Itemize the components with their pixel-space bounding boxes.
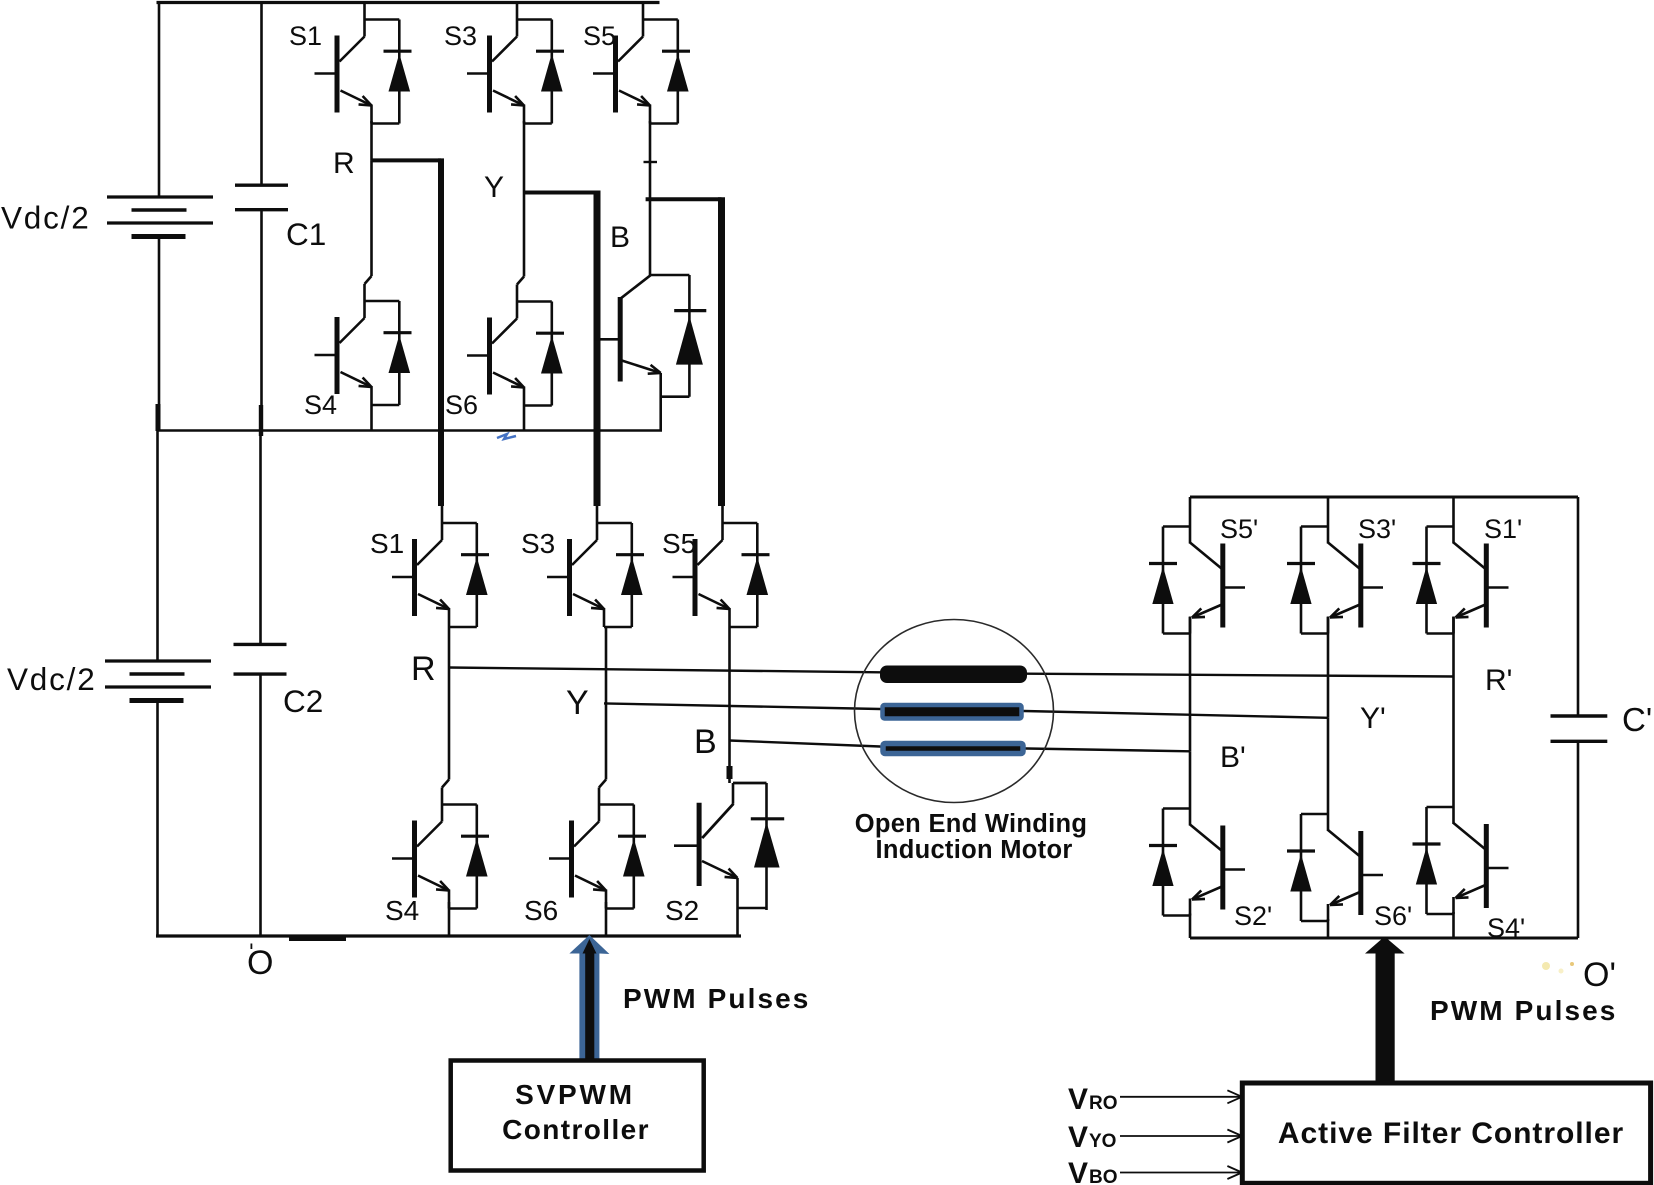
wire: phase B to motor and inverter 2 bbox=[730, 741, 1191, 752]
diode (antiparallel, S5 (tier-1)) bbox=[676, 20, 679, 124]
diode (antiparallel, S5' (inverter 2)) bbox=[1162, 527, 1165, 634]
transistor S1' (inverter 2) bbox=[1413, 527, 1509, 634]
svg-text:Y': Y' bbox=[1360, 702, 1386, 735]
svg-text:S2': S2' bbox=[1234, 901, 1272, 931]
wire: bottom rail to O bbox=[156, 934, 741, 937]
junction blob on B leg bbox=[727, 766, 733, 779]
svg-text:R: R bbox=[411, 650, 436, 688]
wire: S6' emitter to bottom rail bbox=[1327, 919, 1330, 938]
wire: node B down to lower switch bbox=[649, 199, 652, 275]
wire: B feed down to tier-2 (thick) bbox=[718, 197, 725, 506]
diode (antiparallel, S3 (tier-1)) bbox=[550, 20, 553, 124]
wire: leg S1' collector from top rail bbox=[1452, 497, 1455, 527]
wire: S3' emitter down to node bbox=[1327, 617, 1330, 718]
dot above O bbox=[251, 944, 253, 950]
transistor S3 (tier-1) bbox=[467, 3, 564, 124]
svg-text:S3': S3' bbox=[1358, 514, 1396, 544]
svg-text:R': R' bbox=[1485, 664, 1512, 697]
motor winding bar Y (black w/ blue outline) bbox=[883, 705, 1022, 719]
battery Vdc/2 (upper) bbox=[107, 197, 213, 237]
transistor S2' (inverter 2) bbox=[1149, 809, 1245, 916]
svg-text:Open End Winding: Open End Winding bbox=[855, 810, 1088, 838]
box: Active Filter Controller bbox=[1242, 1083, 1650, 1183]
svg-text:V: V bbox=[1068, 1121, 1088, 1154]
svg-text:O': O' bbox=[1583, 956, 1616, 994]
transistor S4 (tier-2) bbox=[392, 788, 489, 909]
diode (antiparallel, S4 (tier-1)) bbox=[398, 301, 401, 405]
capacitor C' bbox=[1551, 714, 1608, 717]
wire: VYO input arrow bbox=[1120, 1135, 1242, 1137]
wire: S1 emitter to node R bbox=[370, 121, 373, 160]
diode (antiparallel, S3' (inverter 2)) bbox=[1300, 527, 1303, 634]
wire: S6 emitter to mid rail bbox=[523, 406, 526, 431]
wire: S1' emitter down to node bbox=[1452, 617, 1455, 677]
wire: node Y down to lower switch bbox=[605, 703, 608, 779]
svg-text:S6: S6 bbox=[445, 390, 478, 420]
svg-text:S2: S2 bbox=[665, 895, 699, 926]
svg-text:C': C' bbox=[1622, 701, 1652, 738]
transistor S2 (tier-2, larger style) bbox=[674, 783, 784, 936]
black PWM arrow (Active Filter Controller to inverter 2) bbox=[1365, 937, 1405, 1084]
svg-text:B: B bbox=[610, 221, 630, 254]
node Y (tier-1): thick tap bbox=[524, 191, 597, 195]
wire: inverter 2 bottom rail bbox=[1190, 937, 1578, 940]
svg-text:S1: S1 bbox=[289, 21, 322, 51]
wire: leg Y emitter down to node bbox=[605, 627, 608, 703]
wire: S4' emitter to bottom rail bbox=[1452, 912, 1455, 938]
thick overlay segment on bottom rail bbox=[289, 937, 346, 941]
svg-text:V: V bbox=[1068, 1083, 1088, 1116]
transistor S5' (inverter 2) bbox=[1149, 527, 1245, 634]
wire: node Y to S6 collector bbox=[523, 193, 526, 277]
svg-text:PWM Pulses: PWM Pulses bbox=[1430, 995, 1617, 1026]
wire: S3 emitter to node Y bbox=[523, 121, 526, 193]
node R (tier-1): thick tap bbox=[372, 158, 442, 162]
transistor S1 (tier-1) bbox=[315, 3, 412, 124]
svg-text:S1: S1 bbox=[370, 528, 404, 559]
wire: leg S5' collector from top rail bbox=[1189, 497, 1192, 527]
wire: S6 emitter to bottom rail bbox=[605, 902, 608, 936]
wire: phase R to motor and inverter 2 bbox=[449, 668, 1454, 677]
svg-text:S4': S4' bbox=[1487, 913, 1525, 943]
transistor S6' (inverter 2) bbox=[1287, 814, 1383, 921]
svg-text:YO: YO bbox=[1089, 1131, 1116, 1152]
svg-text:S5': S5' bbox=[1220, 514, 1258, 544]
wire: leg R emitter down to node bbox=[448, 627, 451, 668]
transistor S6 (tier-2) bbox=[549, 788, 646, 909]
diode (antiparallel, S4' (inverter 2)) bbox=[1425, 807, 1428, 914]
battery Vdc/2 (lower) bbox=[156, 431, 159, 662]
svg-text:RO: RO bbox=[1089, 1093, 1118, 1114]
diode (antiparallel, S1 (tier-2)) bbox=[475, 523, 478, 627]
wire: VBO input arrow bbox=[1120, 1172, 1242, 1174]
transistor S5 (tier-1) bbox=[593, 3, 690, 124]
transistor S3 (tier-2) bbox=[547, 506, 644, 627]
diode (antiparallel, S6' (inverter 2)) bbox=[1300, 814, 1303, 921]
wire: Y feed down to tier-2 (thick) bbox=[594, 191, 601, 507]
wire bbox=[158, 237, 161, 431]
wire: S5 emitter to node B bbox=[649, 121, 652, 199]
capacitor C2 bbox=[259, 431, 262, 645]
diode (antiparallel, S6 (tier-2)) bbox=[632, 805, 635, 909]
blue artifact mark on mid rail bbox=[497, 434, 516, 439]
wire: node R down to lower switch bbox=[448, 668, 451, 780]
diode (antiparallel, S6 (tier-1)) bbox=[550, 302, 553, 406]
svg-text:S1': S1' bbox=[1484, 514, 1522, 544]
svg-text:B': B' bbox=[1220, 741, 1246, 774]
wire: S2' emitter to bottom rail bbox=[1189, 914, 1192, 939]
wire: right bus vertical (bottom) bbox=[1577, 741, 1580, 938]
svg-text:Y: Y bbox=[566, 684, 589, 722]
svg-text:Induction Motor: Induction Motor bbox=[875, 836, 1072, 864]
wire: S5' emitter down to node bbox=[1189, 617, 1192, 751]
wire: VRO input arrow bbox=[1120, 1096, 1242, 1098]
svg-text:R: R bbox=[333, 147, 355, 180]
diode (antiparallel, S5 (tier-2)) bbox=[756, 523, 759, 627]
svg-text:S6': S6' bbox=[1374, 901, 1412, 931]
svg-text:B: B bbox=[694, 723, 717, 761]
transistor S2 (tier-1, unlabeled, larger) bbox=[595, 275, 706, 431]
wire: leg B emitter down to node bbox=[728, 627, 731, 741]
wire: leg S3' collector from top rail bbox=[1327, 497, 1330, 527]
wire: top DC+ rail (inverter 1) bbox=[157, 1, 660, 4]
wire bbox=[156, 701, 159, 937]
svg-text:S3: S3 bbox=[444, 21, 477, 51]
capacitor C1 bbox=[260, 3, 263, 186]
transistor S3' (inverter 2) bbox=[1287, 527, 1383, 634]
tick mark on B leg bbox=[644, 161, 658, 163]
junction blob at C1/C2 and mid rail bbox=[259, 405, 263, 436]
wire: node B down to lower switch bbox=[728, 741, 731, 784]
artifact: pale yellow dots near O' bbox=[1542, 962, 1550, 970]
wire: R feed down to tier-2 (thick) bbox=[438, 158, 444, 506]
wire: phase Y to motor and inverter 2 bbox=[604, 703, 1328, 717]
wire: node down to S4' bbox=[1452, 677, 1455, 808]
wire: node down to S2' bbox=[1189, 751, 1192, 808]
svg-text:C1: C1 bbox=[286, 216, 326, 252]
svg-text:S4: S4 bbox=[304, 390, 337, 420]
wire: mid rail (neutral) bbox=[157, 429, 663, 432]
svg-text:S6: S6 bbox=[524, 895, 558, 926]
wire: inverter 2 top rail bbox=[1190, 496, 1578, 499]
svg-text:S5: S5 bbox=[662, 528, 696, 559]
diode (antiparallel, S1 (tier-1)) bbox=[398, 20, 401, 124]
wire: left DC bus vertical bbox=[158, 3, 161, 198]
svg-text:Controller: Controller bbox=[502, 1114, 650, 1145]
diode (antiparallel, S2' (inverter 2)) bbox=[1162, 809, 1165, 916]
transistor S5 (tier-2) bbox=[673, 506, 770, 627]
wire: node down to S6' bbox=[1327, 718, 1330, 814]
svg-text:S4: S4 bbox=[385, 895, 419, 926]
motor winding bar B (black w/ thick blue outline) bbox=[883, 744, 1023, 754]
svg-text:V: V bbox=[1068, 1157, 1088, 1185]
transistor S4 (tier-1) bbox=[315, 284, 412, 405]
svg-text:C2: C2 bbox=[283, 683, 323, 719]
wire: node R to S4 collector bbox=[370, 160, 373, 276]
black core of blue arrow bbox=[583, 939, 597, 1060]
node B (tier-1): thick tap bbox=[646, 197, 722, 201]
transistor S4' (inverter 2) bbox=[1413, 807, 1509, 914]
svg-text:Vdc/2: Vdc/2 bbox=[1, 200, 91, 236]
transistor S6 (tier-1) bbox=[467, 285, 564, 406]
motor: stator circle (Open End Winding Induction Motor) bbox=[855, 620, 1054, 803]
motor winding bar R (black) bbox=[880, 666, 1027, 684]
wire: S4 emitter to mid rail bbox=[370, 405, 373, 431]
svg-text:S5: S5 bbox=[583, 21, 616, 51]
svg-text:Active Filter Controller: Active Filter Controller bbox=[1278, 1117, 1624, 1150]
svg-text:PWM Pulses: PWM Pulses bbox=[623, 983, 810, 1014]
svg-text:O: O bbox=[247, 944, 273, 982]
box: SVPWM Controller bbox=[451, 1061, 704, 1171]
diode (antiparallel, S4 (tier-2)) bbox=[475, 805, 478, 909]
wire: S4 emitter to bottom rail bbox=[448, 902, 451, 936]
diode (antiparallel, S1' (inverter 2)) bbox=[1425, 527, 1428, 634]
svg-text:Vdc/2: Vdc/2 bbox=[7, 661, 97, 697]
junction blob bbox=[156, 404, 161, 431]
svg-text:S3: S3 bbox=[521, 528, 555, 559]
transistor S1 (tier-2) bbox=[392, 506, 489, 627]
svg-text:Y: Y bbox=[484, 171, 504, 204]
wire: right bus vertical (top) bbox=[1577, 497, 1580, 716]
svg-text:SVPWM: SVPWM bbox=[515, 1079, 635, 1110]
blue PWM arrow (SVPWM to inverter 1) bbox=[569, 935, 609, 1062]
diode (antiparallel, S3 (tier-2)) bbox=[630, 523, 633, 627]
svg-text:BO: BO bbox=[1089, 1167, 1118, 1185]
